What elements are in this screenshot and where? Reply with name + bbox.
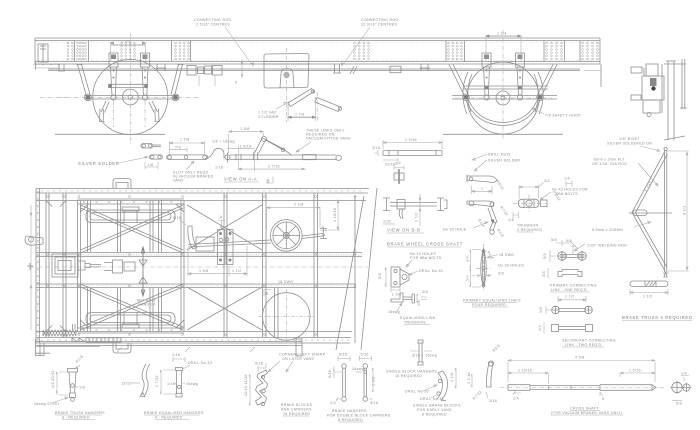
svg-text:1/32" WELDING ROD: 1/32" WELDING ROD [587,244,627,248]
W1 safety straps [99,101,160,127]
trunnion detail [508,179,561,222]
svg-text:1/4: 1/4 [564,177,570,181]
dim 1 15/16 [508,372,549,384]
svg-text:HANGER: HANGER [138,303,155,307]
svg-text:1/8: 1/8 [79,386,85,390]
svg-text:1 1/4: 1 1/4 [497,32,507,36]
svg-text:1/4: 1/4 [538,325,542,331]
svg-text:VANS: VANS [173,179,184,183]
svg-text:5.5mm x 20SWG: 5.5mm x 20SWG [592,228,623,232]
solebar [35,38,600,64]
draw spring housing [52,254,101,277]
corner gussets [46,201,184,332]
bottom left L bracket [36,339,45,356]
svg-text:2 1/8: 2 1/8 [294,203,304,207]
label trunnion 2 required [517,224,542,233]
left end axlebox [33,44,66,97]
section letter A right [320,225,327,238]
svg-text:1 1/2: 1 1/2 [232,269,242,273]
section letter B top [266,177,273,184]
svg-text:1 7/8: 1 7/8 [295,113,305,117]
svg-text:1/2 23/32: 1/2 23/32 [51,370,55,388]
svg-text:8 REQUIRED: 8 REQUIRED [422,413,447,417]
svg-text:BRAKE TRUSS HANGERS: BRAKE TRUSS HANGERS [55,411,105,415]
W1 diagonal struts [77,65,184,101]
svg-text:VIEW ON B-B: VIEW ON B-B [387,228,420,233]
cross shaft [500,356,665,402]
svg-text:1/8: 1/8 [417,300,421,306]
lower crank with No30 hole [467,186,497,234]
s-curve wire [205,140,235,159]
title brake truss [622,315,693,321]
A-A shaft assembly [188,226,327,265]
svg-text:3/8: 3/8 [539,307,543,313]
brake equaliser hanger straight [155,353,212,397]
svg-text:1 3/16: 1 3/16 [240,145,252,149]
svg-text:FOR DOUBLE BLOCK CARRIERS: FOR DOUBLE BLOCK CARRIERS [327,414,391,418]
label no 30 hole [443,222,488,232]
svg-text:ON LATER VANS: ON LATER VANS [282,357,314,361]
svg-text:3/16: 3/16 [372,146,380,150]
svg-text:SILVER SOLDERED ON: SILVER SOLDERED ON [607,142,652,146]
spring capsule top [86,207,175,223]
svg-text:AND CARRIERS: AND CARRIERS [281,408,312,412]
radius labels [477,179,509,260]
truss V [629,147,672,277]
svg-text:11/16 11/16: 11/16 11/16 [244,374,248,396]
svg-text:No 30 HOLES: No 30 HOLES [498,264,524,268]
svg-text:BRAKE WHEEL CROSS SHAFT: BRAKE WHEEL CROSS SHAFT [387,242,463,247]
svg-text:3/8: 3/8 [422,290,428,294]
svg-text:6 1/2: 6 1/2 [683,206,687,216]
label safety hoop [532,108,581,118]
vac cylinder [264,48,309,122]
brake block zigzag [244,362,268,407]
svg-text:1/8 + 16swg: 1/8 + 16swg [212,140,235,144]
svg-text:BRAKE TRUSS 4 REQUIRED: BRAKE TRUSS 4 REQUIRED [622,315,693,320]
tee fitting [394,162,404,185]
title view on B-B [387,228,424,234]
single brake block curved [405,368,456,401]
label 5.5mm wire [592,221,651,232]
rail line [55,133,563,135]
primary equalising link lens [466,244,525,292]
label vac cylinder [258,102,287,119]
svg-text:3/16: 3/16 [489,399,497,403]
svg-text:4 5/8: 4 5/8 [575,356,585,360]
dims 1 5/8 and 1 1/2 below assembly [188,246,247,276]
truss vertical dim [668,151,689,271]
svg-text:12 3/16" CENTRES: 12 3/16" CENTRES [361,23,398,27]
label no43 holes 8ba bolts top [540,177,588,201]
end view vertical planks [664,59,687,140]
right end stanchion [600,64,602,87]
VIEW A-A assembly [215,127,341,171]
svg-text:FOUR REQUIRED: FOUR REQUIRED [472,303,506,307]
svg-text:TRUNNION: TRUNNION [517,224,538,228]
svg-text:1/8" RIVET: 1/8" RIVET [619,137,640,141]
svg-text:16 REQUIRED: 16 REQUIRED [283,412,310,416]
svg-text:13/32: 13/32 [121,382,132,386]
svg-text:8BA BOLTS: 8BA BOLTS [556,192,578,196]
dim 4 5/8 [508,360,655,383]
dim 5 vertical [235,60,243,85]
8BA bolt pointer [137,247,157,307]
rod break slashes [350,66,357,74]
svg-text:5/16: 5/16 [361,353,369,357]
cross members [46,193,355,343]
svg-text:5/8: 5/8 [378,273,382,279]
svg-text:PRIMARY EQUALISING LINKS: PRIMARY EQUALISING LINKS [463,299,521,303]
X braces top bay [81,205,184,330]
svg-text:16swg: 16swg [186,382,198,386]
silver solder label [78,156,148,166]
svg-text:DRILL No 30: DRILL No 30 [419,269,443,273]
link with three holes [167,138,208,160]
svg-text:BRAKE BLOCKS: BRAKE BLOCKS [281,403,313,407]
outer frame rails [36,189,369,344]
svg-text:2 5/16" CENTRES: 2 5/16" CENTRES [196,23,230,27]
label connecting rod left [194,18,254,66]
svg-text:8 - REQUIRED: 8 - REQUIRED [62,416,90,420]
brake equaliser hanger curved [121,364,150,397]
svg-text:5/8: 5/8 [551,238,557,242]
svg-text:1 5/16: 1 5/16 [629,369,641,373]
rod 2 9/16 [372,138,442,167]
svg-text:3/16 + 16swg: 3/16 + 16swg [412,354,437,358]
dim 2 1/8 brake wheel [267,203,321,231]
svg-text:DRILL No.43: DRILL No.43 [188,361,212,365]
svg-text:1: 1 [481,187,483,191]
svg-text:1/32: 1/32 [383,220,391,224]
bottom tab [113,343,131,353]
small fork link [149,155,162,159]
rod fitting right [390,66,401,73]
label connecting rod right [341,18,398,66]
right rod end [336,155,341,160]
svg-text:LINK - TWO REQ'D: LINK - TWO REQ'D [565,343,601,347]
W2 brake shoes [463,72,543,114]
title brake wheel cross shaft [387,242,463,248]
rod turnbuckle [187,66,222,87]
svg-text:1 1/2: 1 1/2 [415,213,419,223]
svg-text:8 REQUIRED: 8 REQUIRED [338,418,363,422]
dims [229,131,264,153]
svg-text:5: 5 [235,81,237,85]
svg-text:1 15/16: 1 15/16 [518,369,532,373]
spring capsule bottom [86,313,175,329]
label 1/32 welding rod [566,239,627,254]
label single brake blocks [413,404,461,417]
svg-text:SILVER SOLDER: SILVER SOLDER [488,159,520,163]
svg-text:3/4: 3/4 [395,162,401,166]
svg-text:A: A [220,215,223,220]
label secondary connecting link [562,339,616,348]
svg-text:PRIMARY CONNECTING: PRIMARY CONNECTING [550,284,597,288]
W2 brake hangers [482,53,525,100]
section letter B bottom [264,290,271,297]
svg-text:1 1/8: 1 1/8 [450,373,454,383]
svg-text:16swg STEEL: 16swg STEEL [34,402,60,406]
svg-text:1/4: 1/4 [330,401,336,405]
coupling hook [25,236,43,270]
svg-text:1/8: 1/8 [508,218,514,222]
svg-text:EQUALISING LINK: EQUALISING LINK [400,316,436,320]
svg-text:B: B [265,291,268,296]
centre rails [30,252,368,287]
svg-text:FOR EARLY VANS: FOR EARLY VANS [417,408,452,412]
rivet grids on solebar [67,42,598,60]
sub frame [78,199,185,333]
svg-text:(FOR VACUUM BRAKED VANS ONLY): (FOR VACUUM BRAKED VANS ONLY) [551,411,623,415]
svg-text:5/16: 5/16 [328,370,332,378]
overall width dim left [30,205,32,330]
svg-text:CONNECTING ROD: CONNECTING ROD [194,18,231,22]
svg-text:BRAKE EQUALISER HANGERS: BRAKE EQUALISER HANGERS [144,411,204,415]
svg-text:1 5/8: 1 5/8 [180,138,190,142]
dim 1 5/16 [620,372,655,377]
svg-text:2 REQUIRED: 2 REQUIRED [517,228,542,232]
rail bolt dots [37,190,361,341]
svg-text:SILVER SOLDER: SILVER SOLDER [78,161,119,166]
drawbar tail lines [36,346,100,353]
svg-text:CROSS SHAFT: CROSS SHAFT [570,407,599,411]
slot label [173,161,214,183]
wheel W2 [455,30,552,140]
W2 pull rods [452,86,557,99]
equalising trunnion bracket [378,252,443,297]
svg-text:1 5/8: 1 5/8 [240,127,250,131]
svg-text:LINK - ONE REQ'D: LINK - ONE REQ'D [551,288,587,292]
svg-text:18 SWG: 18 SWG [278,280,293,284]
W2 diagonal safety straps [449,65,557,126]
dim 1/8 [145,162,158,169]
svg-text:5/16: 5/16 [173,216,181,220]
view B-B shaft [383,194,447,226]
svg-text:5/8: 5/8 [676,402,682,406]
svg-text:No 43 HOLES FOR: No 43 HOLES FOR [552,188,588,192]
svg-text:OR 3/16" DIA ROD: OR 3/16" DIA ROD [592,162,627,166]
svg-text:3/4: 3/4 [544,179,550,183]
svg-text:1 7/32: 1 7/32 [155,375,159,387]
dim 1-1/4 over W2 [486,32,521,63]
svg-text:5: 5 [602,397,604,401]
primary connecting link [542,238,587,278]
right break diagonals [336,188,377,350]
svg-text:1/4: 1/4 [466,256,470,262]
single pin hanger [410,340,437,365]
W1 pull rods [84,84,179,99]
these links note [296,129,351,153]
svg-text:5/8: 5/8 [543,253,547,259]
connecting rod [48,69,580,71]
svg-text:5/16: 5/16 [255,362,263,366]
svg-text:DRILL No35: DRILL No35 [488,153,511,157]
end view body [631,64,664,117]
centre turnbuckle [104,260,135,273]
cross shaft right end [671,372,692,406]
svg-text:7/8: 7/8 [175,146,181,150]
dim 1 15/16 vertical [322,200,340,230]
svg-text:18 SWG: 18 SWG [499,253,514,257]
svg-text:1 1/2: 1 1/2 [121,40,131,44]
svg-text:CONNECTING ROD: CONNECTING ROD [361,18,398,22]
brake wheel [271,220,303,252]
dim 1-1/2 over W1 [111,40,146,63]
label 6mm flat [592,158,658,187]
svg-text:3/16: 3/16 [370,401,378,405]
plan bottom rail extension [36,339,302,356]
svg-text:A: A [322,225,325,230]
rod hanger at cylinder right [333,64,341,73]
svg-text:1/4: 1/4 [681,372,687,376]
svg-text:16swg: 16swg [352,367,364,371]
truss rod detail [630,281,668,299]
labels drill no35 silver solder [472,153,520,172]
bar panel stiffener lines [75,41,581,62]
cylinder plan circle [259,289,314,344]
svg-text:11/16: 11/16 [385,163,395,167]
upper crank [467,175,497,183]
svg-text:1/16: 1/16 [215,166,223,170]
label brake blocks and carriers [281,403,313,416]
svg-text:SINGLE BLOCK HANGERS: SINGLE BLOCK HANGERS [386,370,437,374]
trunnion hook [388,290,428,314]
label primary connecting link [550,284,597,293]
svg-text:No 30 HOLE: No 30 HOLE [443,228,467,232]
X braces mid bays [187,205,262,330]
svg-text:3/8: 3/8 [542,271,546,277]
svg-text:16swg: 16swg [388,310,400,314]
double block hangers [328,353,378,406]
svg-text:1/16: 1/16 [167,382,175,386]
label primary equalising links [463,299,521,308]
wheel W1 [58,33,200,145]
label brake hangers double [327,409,391,422]
small eye link [141,144,161,149]
cross shaft left link [467,344,501,403]
svg-text:4 - REQUIRED: 4 - REQUIRED [155,416,183,420]
cylinder lever [288,89,342,123]
svg-text:1 1/2: 1 1/2 [565,295,575,299]
secondary connecting link [538,295,593,334]
label brake equaliser hangers [144,411,204,420]
svg-text:3/8: 3/8 [498,272,504,276]
label 5/16 [173,216,186,225]
W1 brake hangers [109,53,150,100]
drag spring coil [43,330,121,342]
svg-text:1 1/16: 1 1/16 [467,372,471,384]
svg-text:CYLINDER: CYLINDER [258,115,279,119]
svg-text:2 9/16: 2 9/16 [405,138,417,142]
svg-text:SINGLE BRAKE BLOCKS: SINGLE BRAKE BLOCKS [413,404,461,408]
svg-text:VACUUM FITTED VANS: VACUUM FITTED VANS [306,137,351,141]
svg-text:1/8: 1/8 [148,163,154,167]
svg-text:6mm x 2mm FLT: 6mm x 2mm FLT [594,158,625,162]
svg-text:5/16: 5/16 [339,353,347,357]
section letter A left [218,215,225,230]
spring hanger tabs below bar [58,64,430,71]
dim 1-7/8 cylinder [288,97,315,121]
label cross shaft [551,407,623,416]
svg-text:FOR 8BA BOLTS: FOR 8BA BOLTS [410,256,442,260]
svg-text:1 1/2 VAC: 1 1/2 VAC [258,111,277,115]
svg-text:1 5/8: 1 5/8 [199,269,209,273]
svg-text:1 3/8: 1 3/8 [372,377,376,387]
label 1/8 rivet [607,137,660,151]
corners label [268,353,326,373]
svg-text:16 REQUIRED: 16 REQUIRED [395,374,422,378]
svg-text:1/4: 1/4 [513,397,519,401]
label single block hangers [386,370,437,379]
brake truss hanger detail [34,355,85,406]
label brake truss hangers [55,411,105,420]
svg-text:1 1/2: 1 1/2 [643,295,653,299]
title view on A-A [224,177,259,183]
svg-text:7/8 SAFETY HOOP: 7/8 SAFETY HOOP [545,114,581,118]
svg-text:BRAKE HANGERS: BRAKE HANGERS [332,409,367,413]
svg-text:2 7/16: 2 7/16 [268,164,280,168]
bent crank on top [255,138,292,155]
svg-text:1/16: 1/16 [172,353,180,357]
label equalising link trunnion [400,316,436,325]
svg-text:TRUNNION: TRUNNION [404,321,425,325]
svg-text:SECONDARY CONNECTING: SECONDARY CONNECTING [562,339,616,343]
svg-text:1 15/16: 1 15/16 [333,208,337,222]
svg-text:VIEW ON A-A: VIEW ON A-A [224,177,257,182]
top tab [113,179,131,189]
svg-text:1/4: 1/4 [466,275,470,281]
